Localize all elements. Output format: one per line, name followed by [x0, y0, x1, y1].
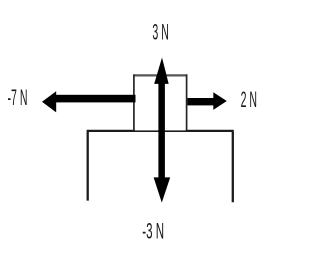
left arrowhead (-7 N): [42, 91, 56, 112]
vertical arrow shaft (shared by 3N up and -3N down): [158, 79, 165, 179]
svg-text:2 N: 2 N: [241, 86, 257, 111]
svg-text:-7 N: -7 N: [8, 84, 28, 109]
svg-text:3 N: 3 N: [152, 19, 168, 44]
left arrow shaft (-7 N): [55, 95, 136, 103]
down arrowhead (-3 N): [154, 177, 171, 202]
right arrowhead (2 N): [213, 92, 227, 110]
small block right edge: [186, 74, 188, 130]
small block left edge: [133, 74, 135, 130]
small block top edge: [133, 74, 187, 76]
right arrow shaft (2 N): [188, 98, 215, 105]
up arrowhead (3 N): [154, 58, 169, 84]
svg-text:-3 N: -3 N: [142, 218, 164, 243]
large rectangle (table/base, open bottom): [87, 131, 234, 202]
small block fill: [135, 76, 186, 130]
